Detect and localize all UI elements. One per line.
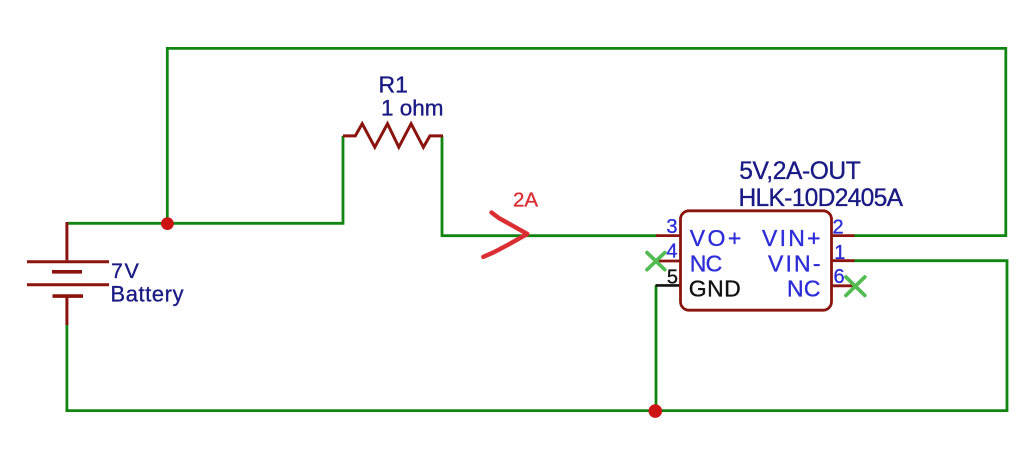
svg-text:5V,2A-OUT: 5V,2A-OUT (739, 158, 861, 185)
svg-text:R1: R1 (379, 72, 408, 98)
svg-text:GND: GND (689, 275, 741, 301)
svg-text:VO+: VO+ (690, 225, 742, 251)
svg-text:VIN+: VIN+ (762, 225, 821, 251)
svg-text:1: 1 (834, 242, 845, 264)
svg-text:HLK-10D2405A: HLK-10D2405A (739, 185, 904, 212)
svg-text:1 ohm: 1 ohm (381, 95, 444, 120)
svg-text:VIN-: VIN- (768, 250, 821, 276)
svg-text:3: 3 (666, 216, 677, 238)
svg-text:NC: NC (690, 250, 723, 276)
svg-text:5: 5 (667, 267, 678, 289)
svg-text:Battery: Battery (111, 282, 184, 307)
svg-text:7V: 7V (111, 259, 139, 283)
svg-text:4: 4 (666, 241, 677, 263)
svg-text:2A: 2A (513, 189, 538, 212)
svg-text:6: 6 (834, 266, 845, 288)
svg-text:NC: NC (787, 275, 821, 301)
svg-text:2: 2 (833, 217, 844, 239)
